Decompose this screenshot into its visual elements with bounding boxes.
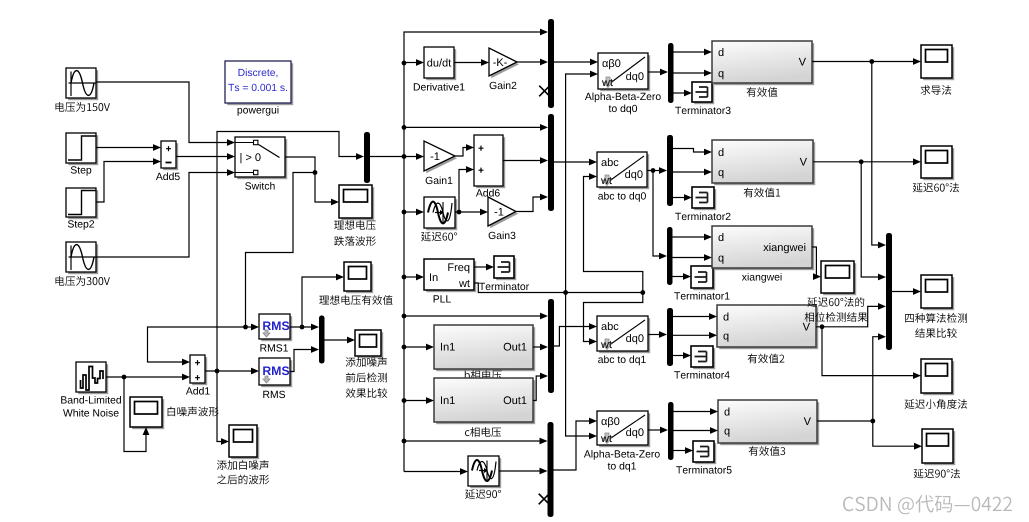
wire PLL Freq to Terminator bbox=[474, 264, 494, 271]
wire Add1 out to RMS bbox=[205, 368, 259, 375]
terminator block Terminator2 bbox=[675, 187, 730, 220]
terminator block Terminator4 bbox=[674, 346, 730, 379]
junction rail at PLL bbox=[402, 275, 407, 280]
wire wt tap to abc to dq1 bbox=[584, 293, 643, 345]
wire demux6 q to 有效值3 bbox=[674, 427, 719, 434]
wire demux2 q to 有效值1 bbox=[673, 169, 712, 176]
junction 延迟60°法 branch bbox=[859, 159, 864, 164]
wire rail to Derivative1 bbox=[404, 59, 424, 66]
wire mux bar2 to abc to dq0 bbox=[554, 159, 597, 166]
scope 延迟小角度法 bbox=[905, 359, 968, 409]
wire demux1 to Terminator3 bbox=[674, 90, 693, 97]
wire demux4 q to 有效值2 bbox=[673, 332, 717, 339]
wire Derivative1 to Gain2 bbox=[454, 59, 489, 66]
wire demux3 d to xiangwei bbox=[673, 234, 713, 241]
wire rail to 延迟60° bbox=[404, 209, 424, 216]
wire bar3 out to abc to dq1 bbox=[554, 323, 597, 346]
transform block Alpha-Beta-Zero to dq0 bbox=[585, 53, 661, 114]
wire 延迟60°法 branch to bar4 bbox=[861, 162, 886, 281]
wire RMS1 branch to scope 理想电压有效值 bbox=[302, 274, 344, 327]
source block 电压为300V (sine) bbox=[56, 242, 110, 286]
junction 有效值3 output bbox=[870, 419, 875, 424]
wire c相电压 Out1 to bar3 bbox=[533, 373, 548, 401]
scope 理想电压跌落波形 bbox=[334, 185, 376, 246]
gain block Gain1 bbox=[424, 141, 457, 184]
wire bar4 out to scope 四种算法 bbox=[892, 288, 921, 295]
wire 有效值2 V branch to bar4 bbox=[816, 303, 886, 327]
wire Add6 to mux bar2 bbox=[503, 157, 548, 164]
wire rail to mux bar2 in1 bbox=[404, 124, 548, 131]
RMS1 block bbox=[259, 314, 292, 352]
junction rail at bar2 line bbox=[402, 125, 407, 130]
wire rail to mux bar5 in1 bbox=[404, 438, 548, 445]
junction rail at derivative bbox=[402, 61, 407, 66]
wire 求导法 branch to bar4 bbox=[872, 62, 886, 249]
wire wt tap to abc to dq0 bbox=[584, 173, 643, 292]
wire Gain3 to mux bar2 bbox=[516, 194, 548, 212]
wire delay60 branch to Add6 bbox=[459, 166, 474, 212]
subsystem b相电压 bbox=[434, 325, 535, 380]
derivative block Derivative1 bbox=[414, 47, 465, 91]
scope 延迟60°法的相位检测结果 bbox=[805, 261, 868, 322]
scope 添加白噪声之后的波形 bbox=[217, 425, 269, 484]
scope 延迟90°法 bbox=[914, 429, 960, 478]
terminator block Terminator5 bbox=[676, 441, 731, 474]
wire wt rail down to ABZ dq1 bbox=[566, 293, 597, 440]
wire Switch out to scope 跌落波形 bbox=[285, 157, 339, 205]
junction delay60 output bbox=[457, 210, 462, 215]
junction wt line right bbox=[640, 290, 645, 295]
switch block Switch bbox=[235, 137, 287, 190]
junction noise output bbox=[122, 375, 127, 380]
wire Step to Add5 plus bbox=[96, 144, 161, 151]
wire 有效值3 branch to scope 延迟90°法 bbox=[873, 421, 922, 450]
wire Step2 to Add5 minus bbox=[96, 158, 161, 202]
wire 有效值 V to scope 求导法 bbox=[812, 58, 921, 65]
junction rail at bar3 line bbox=[402, 314, 407, 319]
sum block Add1 bbox=[186, 355, 210, 395]
subsystem xiangwei bbox=[712, 226, 814, 283]
delay block 延迟90° bbox=[465, 456, 501, 499]
wire RMS out to mux B bbox=[290, 346, 319, 371]
demux bar 6 bbox=[668, 402, 674, 460]
wire 有效值2 branch to scope 延迟小角度法 bbox=[822, 327, 921, 379]
subsystem 有效值 bbox=[712, 41, 814, 97]
junction rail at gain1 row bbox=[402, 154, 407, 159]
wire abc-dq1 out to demux4 bbox=[648, 331, 667, 338]
wire switch branch down-left bbox=[246, 173, 316, 328]
junction rail at c相电压 bbox=[402, 398, 407, 403]
wire rail to mux bar3 in1 bbox=[404, 313, 548, 320]
scope 理想电压有效值 bbox=[319, 262, 392, 305]
scope 求导法 bbox=[921, 45, 955, 95]
wire demux3 to Terminator1 bbox=[673, 273, 692, 280]
wire demux6 to Terminator5 bbox=[674, 447, 694, 454]
demux bar 3 bbox=[667, 227, 673, 285]
wire Gain2 to mux bar1 bbox=[517, 59, 548, 66]
transform block Alpha-Beta-Zero to dq1 bbox=[584, 411, 660, 472]
wire abc-dq0 out to demux2 bbox=[647, 167, 667, 174]
source block Band-Limited White Noise bbox=[61, 362, 121, 417]
junction rail at b相电压 bbox=[402, 345, 407, 350]
subsystem 有效值3 bbox=[718, 400, 819, 456]
wire demux2 d to 有效值1 bbox=[673, 149, 712, 156]
terminator block Terminator1 bbox=[674, 266, 729, 300]
PLL block bbox=[424, 259, 476, 303]
junction ideal signal node bbox=[243, 325, 248, 330]
wire Gain1 to Add6 bbox=[455, 144, 474, 156]
mux bar 3 (abc inputs dq1) bbox=[548, 299, 554, 393]
wire demux4 to Terminator4 bbox=[673, 352, 691, 359]
transform block abc to dq0 bbox=[597, 152, 649, 202]
terminator block Terminator3 bbox=[675, 82, 730, 114]
wire b相电压 Out1 to bar3 bbox=[533, 344, 548, 351]
junction Add1 output bbox=[215, 369, 220, 374]
wire 有效值1 V to scope 延迟60°法 bbox=[813, 158, 921, 165]
mux bar 4 (four algorithms) bbox=[886, 233, 892, 350]
wire demux1 d to 有效值 bbox=[674, 49, 713, 56]
gain block Gain2 bbox=[489, 48, 519, 89]
source block 电压为150V (sine) bbox=[56, 68, 110, 112]
mux bar B (RMS compare) bbox=[319, 316, 325, 364]
junction 求导法 branch bbox=[869, 59, 874, 64]
wire demux3 q to xiangwei bbox=[673, 254, 713, 261]
source block Step bbox=[66, 133, 98, 176]
wire ABZ dq0 out to demux1 bbox=[648, 69, 668, 76]
mux bar 5 (alpha-beta dq1 inputs) bbox=[539, 422, 554, 517]
wire main rail top to mux bar1 bbox=[404, 29, 548, 472]
demux bar 1 bbox=[668, 43, 674, 103]
subsystem c相电压 bbox=[434, 378, 535, 437]
delay block 延迟60° bbox=[421, 197, 457, 241]
scope 添加噪声前后检测效果比较 bbox=[346, 330, 388, 398]
wire Add5 to Switch in2 bbox=[176, 153, 235, 160]
wire xiangwei out to scope 相位检测结果 bbox=[812, 247, 821, 280]
wire demux2 to Terminator2 bbox=[673, 194, 692, 201]
RMS block bbox=[259, 358, 292, 398]
wire white noise to Add1 plus2 bbox=[106, 374, 190, 381]
wire 有效值3 branch up to bar4 bbox=[873, 333, 886, 421]
demux bar 2 bbox=[667, 135, 673, 206]
junction abc-dq0 output bbox=[651, 168, 656, 173]
wire rail to c相电压 In1 bbox=[404, 397, 434, 404]
junction rail at bar5 line bbox=[402, 439, 407, 444]
wire Add1 out down to scope 添加白噪声之后的波形 bbox=[217, 371, 229, 445]
wire ideal signal to RMS1 bbox=[246, 324, 260, 331]
mux bar 1 (alpha-beta inputs) bbox=[539, 19, 554, 108]
wire ideal signal to Add1 plus1 bbox=[148, 327, 246, 365]
wire wt rail up to ABZ dq0 bbox=[566, 71, 598, 293]
demux bar 4 bbox=[667, 308, 673, 366]
wire mux A out to Gain1 bbox=[370, 153, 424, 160]
junction 有效值2 output bbox=[820, 324, 825, 329]
junction on switch output bbox=[313, 170, 318, 175]
wire rail to PLL In bbox=[404, 274, 424, 281]
wire 有效值3 V out bbox=[817, 420, 873, 422]
subsystem 有效值2 bbox=[717, 305, 818, 363]
wire sine150V to Switch in1 bbox=[96, 82, 235, 146]
wire bar5 out to ABZ dq1 bbox=[554, 418, 598, 470]
scope 白噪声波形 bbox=[130, 397, 219, 429]
terminator block Terminator (PLL Freq) bbox=[479, 256, 529, 290]
subsystem 有效值1 bbox=[712, 140, 815, 197]
wire rail to b相电压 In1 bbox=[404, 344, 434, 351]
sum block Add6 bbox=[474, 135, 505, 197]
wire demux4 d to 有效值2 bbox=[673, 313, 717, 320]
wire abc-dq0 rail down to demux3 bbox=[653, 171, 667, 260]
wire PLL wt distribution line bbox=[474, 283, 643, 293]
wire rail bottom to 延迟90° bbox=[404, 468, 468, 475]
watermark CSDN bbox=[843, 495, 1012, 514]
junction wt line left bbox=[563, 290, 568, 295]
wire demux1 q to 有效值 bbox=[674, 70, 713, 77]
wire mux bar1 to Alpha-Beta-Zero dq0 bbox=[554, 59, 598, 66]
wire Add1 out up to mux A bbox=[217, 132, 364, 372]
wire sine300V to Switch in3 bbox=[96, 169, 235, 257]
source block Step2 bbox=[66, 188, 98, 230]
mux bar A (noisy signal) bbox=[364, 132, 370, 183]
wire demux6 d to 有效值3 bbox=[674, 408, 719, 415]
transform block abc to dq1 bbox=[597, 316, 650, 365]
mux bar 2 (abc inputs) bbox=[548, 114, 554, 211]
junction RMS1 output bbox=[300, 325, 305, 330]
wire mux B to scope 比较 bbox=[325, 337, 356, 344]
wire noise to scope 白噪声波形 bbox=[124, 377, 149, 452]
scope 四种算法检测结果比较 bbox=[905, 275, 967, 338]
powergui block bbox=[225, 61, 293, 116]
wire 延迟90° to bar5 bbox=[499, 468, 548, 475]
wire ABZ dq1 out to demux6 bbox=[648, 427, 668, 434]
scope 延迟60°法 bbox=[913, 146, 959, 192]
junction rail at delay60 bbox=[402, 210, 407, 215]
wire RMS1 out to mux B bbox=[290, 324, 319, 331]
wire 延迟60° to Gain3 bbox=[455, 209, 488, 216]
gain block Gain3 bbox=[488, 197, 518, 239]
sum block Add5 bbox=[156, 141, 180, 180]
